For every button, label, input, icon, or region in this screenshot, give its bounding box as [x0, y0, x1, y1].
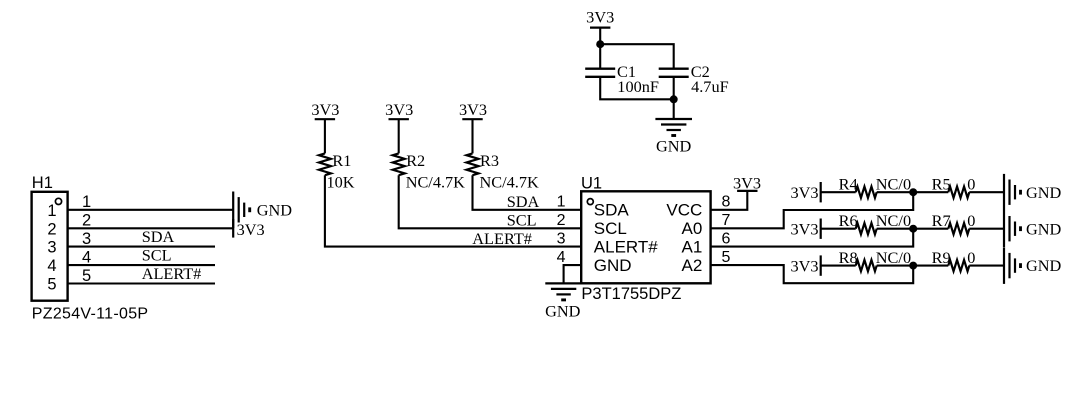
svg-text:GND: GND: [1026, 183, 1062, 202]
svg-text:R6: R6: [839, 211, 858, 230]
svg-text:5: 5: [82, 267, 91, 285]
svg-text:3V3: 3V3: [586, 7, 614, 26]
connector H1 body: [32, 192, 68, 301]
3V3 power symbol at VCC: [737, 190, 757, 192]
svg-text:2: 2: [82, 212, 91, 230]
wire 3V3 to R6: [821, 228, 856, 230]
svg-text:R8: R8: [839, 248, 858, 267]
svg-text:H1: H1: [32, 174, 53, 192]
junction node 3V3/C1/C2: [596, 40, 604, 48]
svg-text:1: 1: [47, 202, 56, 220]
resistor R2: [393, 153, 405, 175]
svg-text:3V3: 3V3: [790, 219, 818, 238]
svg-text:R4: R4: [839, 175, 858, 194]
H1 pin 4 wire (SCL): [68, 264, 215, 266]
junction node R6/R7: [909, 225, 917, 233]
resistor R4: [856, 187, 877, 198]
svg-text:3V3: 3V3: [237, 220, 265, 239]
svg-text:VCC: VCC: [666, 201, 702, 220]
svg-text:A2: A2: [682, 256, 703, 275]
3V3 power symbol above C1: [590, 27, 610, 29]
svg-text:SCL: SCL: [142, 246, 172, 265]
svg-text:GND: GND: [1026, 256, 1062, 275]
resistor R9: [948, 260, 969, 271]
wire 3V3 to R1: [324, 119, 326, 153]
wire C2 bottom: [673, 77, 675, 100]
svg-text:R7: R7: [932, 211, 951, 230]
svg-text:NC/4.7K: NC/4.7K: [480, 173, 539, 192]
wire junction to ground: [673, 99, 675, 119]
ground symbol at R5: [1003, 174, 1005, 211]
svg-text:P3T1755DPZ: P3T1755DPZ: [581, 285, 681, 303]
U1 pin 6 A1 wire to R6/R7 junction: [711, 229, 914, 247]
ground symbol below C2: [655, 118, 692, 120]
svg-text:4: 4: [82, 249, 91, 267]
svg-text:10K: 10K: [327, 173, 355, 192]
svg-text:3V3: 3V3: [385, 100, 413, 119]
svg-text:ALERT#: ALERT#: [472, 229, 532, 248]
svg-text:0: 0: [967, 175, 975, 194]
svg-text:ALERT#: ALERT#: [142, 264, 202, 283]
svg-text:SCL: SCL: [594, 219, 627, 238]
svg-text:3V3: 3V3: [790, 256, 818, 275]
svg-text:2: 2: [47, 220, 56, 238]
svg-text:3V3: 3V3: [790, 183, 818, 202]
svg-text:7: 7: [722, 212, 731, 229]
resistor R3: [467, 153, 479, 175]
ground symbol at U1 pin 4: [545, 282, 582, 284]
svg-text:A1: A1: [682, 238, 703, 257]
svg-text:A0: A0: [682, 219, 703, 238]
svg-text:R2: R2: [406, 151, 425, 170]
wire junction to R9: [913, 265, 948, 267]
wire R2 down and right to U1: [399, 175, 582, 228]
svg-text:3V3: 3V3: [311, 100, 339, 119]
H1 pin 5 wire (ALERT#): [68, 282, 215, 284]
svg-text:1: 1: [557, 194, 566, 211]
wire R9 to ground: [969, 265, 1004, 267]
3V3 power symbol at R4: [820, 182, 822, 202]
svg-text:GND: GND: [594, 256, 632, 275]
resistor R7: [948, 223, 969, 234]
3V3 power bar at H1 pin 2: [232, 219, 234, 238]
wire 3V3 to R2: [398, 119, 400, 153]
svg-text:0: 0: [967, 211, 975, 230]
U1 pin 4 GND wire: [564, 265, 582, 283]
ground symbol at R9: [1003, 247, 1005, 284]
svg-text:5: 5: [47, 276, 56, 294]
svg-text:2: 2: [557, 212, 566, 229]
svg-text:GND: GND: [545, 301, 581, 320]
wire R8 to junction: [877, 265, 914, 267]
svg-text:GND: GND: [656, 137, 692, 156]
3V3 power symbol above R3: [462, 118, 482, 120]
svg-text:SDA: SDA: [507, 192, 540, 211]
wire R3 down and right to U1: [473, 175, 582, 210]
svg-text:PZ254V-11-05P: PZ254V-11-05P: [32, 306, 149, 323]
resistor R1: [319, 153, 331, 175]
svg-text:R5: R5: [932, 175, 951, 194]
ground symbol at R7: [1003, 210, 1005, 247]
svg-text:100nF: 100nF: [617, 77, 659, 96]
wire 3V3 to R8: [821, 265, 856, 267]
svg-text:U1: U1: [581, 174, 602, 192]
svg-text:4.7uF: 4.7uF: [691, 77, 729, 96]
U1 pin 1 indicator circle: [587, 199, 593, 205]
wire R4 to junction: [877, 191, 914, 193]
resistor R8: [856, 260, 877, 271]
svg-text:3: 3: [47, 239, 56, 257]
resistor R6: [856, 223, 877, 234]
svg-text:NC/0: NC/0: [876, 248, 911, 267]
3V3 power symbol above R1: [315, 118, 335, 120]
svg-text:3: 3: [82, 230, 91, 248]
svg-text:NC/0: NC/0: [876, 175, 911, 194]
svg-text:GND: GND: [1026, 219, 1062, 238]
wire 3V3 to R3: [471, 119, 473, 153]
U1 pin 7 A0 wire to R4/R5 junction: [711, 192, 914, 228]
U1 pin 8 VCC wire: [711, 191, 748, 210]
svg-text:R9: R9: [932, 248, 951, 267]
svg-text:SDA: SDA: [142, 227, 175, 246]
svg-text:3V3: 3V3: [459, 100, 487, 119]
3V3 power symbol at R8: [820, 255, 822, 275]
IC U1 body: [581, 191, 710, 283]
svg-text:R3: R3: [480, 151, 499, 170]
svg-text:ALERT#: ALERT#: [594, 238, 658, 257]
wire junction to R5: [913, 191, 948, 193]
capacitor C1: [585, 68, 615, 70]
svg-text:5: 5: [722, 249, 731, 266]
H1 pin 3 wire (SDA): [68, 246, 215, 248]
H1 pin 2 wire to 3V3: [68, 227, 234, 229]
capacitor C2: [659, 68, 689, 70]
svg-text:4: 4: [47, 257, 56, 275]
svg-text:0: 0: [967, 248, 975, 267]
wire R6 to junction: [877, 228, 914, 230]
wire R7 to ground: [969, 228, 1004, 230]
svg-text:R1: R1: [332, 151, 351, 170]
svg-text:1: 1: [82, 193, 91, 211]
junction node C2 bottom/GND: [670, 95, 678, 103]
svg-text:4: 4: [557, 249, 566, 266]
wire R1 down and right to U1: [325, 175, 581, 246]
svg-text:SCL: SCL: [507, 211, 537, 230]
svg-text:8: 8: [722, 194, 731, 211]
svg-text:NC/4.7K: NC/4.7K: [406, 173, 465, 192]
U1 pin 5 A2 wire to R8/R9 junction: [711, 265, 914, 283]
wire R5 to ground: [969, 191, 1004, 193]
junction node R4/R5: [909, 188, 917, 196]
wire junction to C2 top: [600, 44, 674, 68]
svg-text:3V3: 3V3: [733, 173, 761, 192]
svg-text:6: 6: [722, 230, 731, 247]
svg-text:NC/0: NC/0: [876, 211, 911, 230]
svg-text:SDA: SDA: [594, 201, 630, 220]
wire 3V3 to R4: [821, 191, 856, 193]
H1 pin 1 wire to GND: [68, 209, 234, 211]
wire C1 bottom to C2 bottom: [600, 77, 674, 100]
svg-text:3: 3: [557, 230, 566, 247]
resistor R5: [948, 187, 969, 198]
wire junction to R7: [913, 228, 948, 230]
svg-text:GND: GND: [257, 200, 293, 219]
wire 3V3 down to junction: [599, 28, 601, 69]
3V3 power symbol above R2: [389, 118, 409, 120]
3V3 power symbol at R6: [820, 219, 822, 239]
ground symbol at H1 pin 1: [232, 192, 234, 229]
junction node R8/R9: [909, 262, 917, 270]
H1 pin 1 indicator circle: [55, 198, 61, 204]
